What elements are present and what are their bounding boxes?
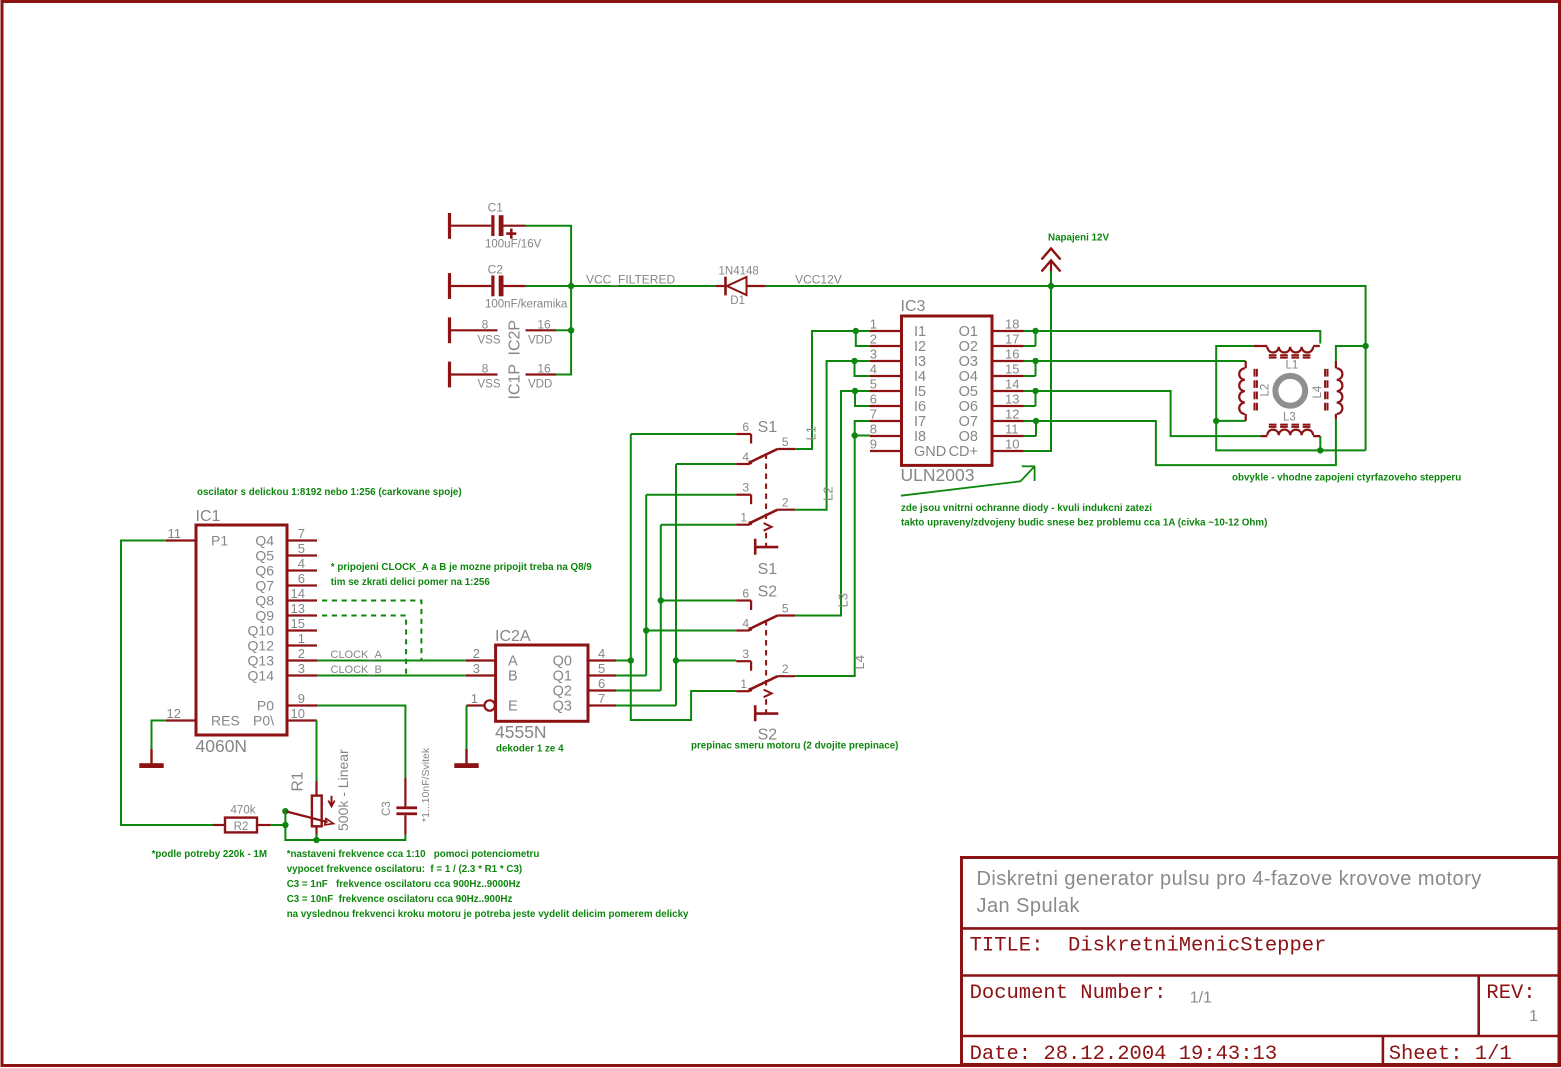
IC2A pin 7 (Q3) stub [588,704,616,706]
wire branch to IC2P VDD [556,329,571,331]
svg-text:IC3: IC3 [901,298,926,315]
inductor L2 core dashes [1254,369,1256,411]
svg-text:2: 2 [298,646,305,661]
svg-text:O2: O2 [959,339,978,355]
svg-text:O4: O4 [959,369,978,385]
wire tie IC3 pins 1-2 [856,331,870,346]
svg-text:O3: O3 [959,354,978,370]
svg-text:R1: R1 [290,772,307,792]
svg-text:L3: L3 [1283,411,1296,423]
capacitor C3 plates [396,806,417,809]
IC3 pin 1 (I1) stub [870,330,902,332]
wire tie IC3 pin 8 into L4 net [855,435,870,437]
switch S1 gang dashed link [765,454,767,522]
svg-text:7: 7 [870,407,877,422]
svg-text:8: 8 [482,362,489,376]
svg-text:11: 11 [1005,422,1019,437]
svg-text:Document Number:: Document Number: [970,982,1167,1005]
switch S2 pole B lever 1-2 [750,676,778,690]
IC3 pin 2 (I2) stub [870,345,902,347]
svg-text:CLOCK_A: CLOCK_A [331,649,383,661]
capacitor C2 right wire [504,285,526,287]
svg-text:O5: O5 [959,384,978,400]
IC1 pin 5 (Q5) stub [287,554,317,556]
junction dot at wiper [282,808,288,814]
svg-text:1: 1 [740,511,747,525]
svg-text:Q1: Q1 [553,669,572,685]
title block divider under Document Number row [962,1035,1560,1038]
svg-text:Jan Spulak: Jan Spulak [977,895,1081,917]
capacitor C1 plate 2 (electrolytic) [499,215,504,236]
junction dot VCC12V at L4 top branch [1362,343,1368,349]
junction dot IC3 pins 18-17 [1032,328,1038,334]
wire IC1 RES pin 12 to ground [152,721,167,750]
svg-text:Diskretni generator pulsu pro: Diskretni generator pulsu pro 4-fazove k… [977,868,1482,890]
IC2A pin 6 (Q2) stub [588,689,616,691]
switch S2 pole B pin 1 stub [736,690,749,692]
svg-text:Q9: Q9 [255,608,274,624]
junction dot IC3 pins 1-2 [853,328,859,334]
IC3 pin 13 (O6) stub [992,405,1024,407]
svg-text:IC1: IC1 [196,508,221,525]
svg-text:TITLE: DiskretniMenicStepper: TITLE: DiskretniMenicStepper [970,935,1327,958]
svg-text:6: 6 [598,676,605,691]
title block REV column divider [1477,976,1480,1037]
title block Sheet column divider [1382,1036,1385,1065]
svg-text:A: A [508,654,518,670]
IC1 pin 1 (Q12) stub [287,644,317,646]
wire net O1/O2 output to motor coil L1 right end [1024,331,1321,344]
svg-text:I6: I6 [914,399,926,415]
svg-text:1N4148: 1N4148 [719,266,759,278]
IC3 pin 7 (I7) stub [870,420,902,422]
svg-text:2: 2 [473,646,480,661]
op IC3 ULN2003 body box [902,316,993,465]
svg-text:9: 9 [298,691,305,706]
svg-text:6: 6 [742,420,749,434]
svg-text:VSS: VSS [478,379,501,391]
capacitor C3 bottom stub [404,815,406,834]
junction dot net Q1 at S2 throw 4 row [643,627,649,633]
svg-text:VSS: VSS [478,334,501,346]
svg-text:5: 5 [782,435,789,449]
switch S1 pole A lever 4-5 [750,449,778,463]
switch S2 pole A pin 4 stub [736,629,749,631]
optional dashed wire from IC1 Q8 to CLOCK_A [322,601,421,661]
svg-text:S2: S2 [758,583,778,600]
IC1 pin 4 (Q6) stub [287,569,317,571]
svg-text:oscilator s delickou 1:8192 ne: oscilator s delickou 1:8192 nebo 1:256 (… [197,487,462,498]
svg-text:GND: GND [914,444,946,460]
inductor L2 motor coil (left) [1245,361,1247,421]
IC1 pin 14 (Q8) stub [287,599,317,601]
svg-text:7: 7 [298,526,305,541]
svg-text:4: 4 [742,617,749,631]
switch S2 gang dashed link [765,620,767,688]
wire tie IC3 pins 14-13 [1035,391,1037,406]
IC3 pin 4 (I4) stub [870,375,902,377]
svg-text:Q10: Q10 [248,623,275,639]
junction dot IC3 pins 7-8 [852,432,858,438]
svg-text:3: 3 [742,647,749,661]
svg-text:6: 6 [870,392,877,407]
svg-text:C3: C3 [381,801,393,816]
svg-text:5: 5 [598,661,605,676]
wire net VCC12V from D1 to motor common [766,286,1366,450]
svg-text:3: 3 [742,481,749,495]
svg-text:E: E [508,699,518,715]
wire net Q0: IC2A Q0 to S1 throw 6 and S2 throw 1 [616,660,631,662]
svg-text:4: 4 [598,646,605,661]
svg-text:Q0: Q0 [553,654,572,670]
junction dot motor common at L1/L2 [1213,418,1219,424]
ground symbol at IC1 RES [150,749,152,764]
wire tie IC3 pins 16-15 [1035,361,1037,376]
wire R2 right to wiper column [271,824,286,826]
wire net O3/O4 output to motor coil L2 top end [1024,360,1246,362]
svg-text:16: 16 [537,362,551,376]
wire net Q3: IC2A Q3 to S1 throw 4 and S2 throw 3 [616,705,676,707]
switch S1 throw contact 3 [736,494,751,496]
diode D1 left lead [716,285,725,287]
svg-text:1: 1 [870,317,877,332]
IC2A pin 4 (Q0) stub [588,659,616,661]
IC3 pin 17 (O2) stub [992,345,1024,347]
svg-text:3: 3 [473,661,480,676]
svg-text:4555N: 4555N [495,722,547,742]
junction dot IC3 pins 14-13 [1032,388,1038,394]
svg-text:8: 8 [482,317,489,331]
switch S1 detent spring symbol [764,523,772,531]
inductor L3 motor coil (bottom) [1261,435,1321,437]
IC2A pin 2 (A) stub [466,659,496,661]
wire net Q1: IC2A Q1 to S1 throw 3 and S2 throw 4 [616,675,646,677]
svg-text:REV:: REV: [1486,982,1535,1005]
svg-text:S1: S1 [758,419,778,436]
svg-text:P1: P1 [211,533,228,549]
svg-text:16: 16 [1005,347,1019,362]
svg-text:4: 4 [298,556,305,571]
wire wiper column down to R1 bottom and C3 bottom [285,811,405,840]
switch S2 pole A lever 4-5 [750,616,778,630]
potentiometer R1 top stub [315,781,317,796]
wire IC2A E to ground [466,706,468,750]
svg-text:1/1: 1/1 [1190,989,1212,1006]
junction dot VCC12V at supply arrow [1048,283,1054,289]
diode D1 right lead [747,285,766,287]
wire motor common: L1 left / L2 bottom / L3 right to VCC12V [1216,346,1365,450]
motor rotor core circle [1275,376,1305,406]
svg-text:L3: L3 [836,593,851,607]
resistor R2 body [225,818,257,833]
inductor L4 core dashes [1324,369,1326,411]
counter IC1 4060N body box [196,525,287,735]
switch S2 detent spring symbol [764,690,772,698]
svg-text:Napajeni 12V: Napajeni 12V [1048,233,1109,244]
svg-text:takto upraveny/zdvojeny budic: takto upraveny/zdvojeny budic snese bez … [901,518,1267,529]
svg-text:2: 2 [782,662,789,676]
IC1P VDD stub [526,373,557,375]
svg-text:4060N: 4060N [196,736,248,756]
inductor L1 core dashes [1269,354,1311,356]
capacitor C1 right wire [504,225,526,227]
svg-text:500k - Linear: 500k - Linear [335,749,351,831]
switch S2 common pin 2 stub [778,675,796,677]
svg-text:VDD: VDD [528,334,552,346]
IC1 pin 12 (RES) stub [166,719,196,721]
svg-text:*nastaveni frekvence cca 1:10: *nastaveni frekvence cca 1:10 pomoci pot… [287,849,540,860]
supply symbol Napajeni 12V arrow chevrons [1042,249,1061,260]
svg-text:L4: L4 [852,655,867,669]
potentiometer R1 wiper arrow [287,812,328,823]
svg-text:O7: O7 [959,414,978,430]
svg-text:4: 4 [742,450,749,464]
svg-text:6: 6 [742,587,749,601]
title block divider under header [962,927,1560,930]
IC3 pin 6 (I6) stub [870,405,902,407]
svg-text:vypocet frekvence oscilatoru:: vypocet frekvence oscilatoru: f = 1 / (2… [287,864,523,875]
svg-text:2: 2 [782,496,789,510]
inductor L1 motor coil (top) [1261,345,1320,347]
inductor L1 left lead red stub [1254,345,1261,347]
svg-text:Q12: Q12 [248,638,275,654]
svg-text:*podle potreby 220k - 1M: *podle potreby 220k - 1M [152,849,267,860]
svg-text:Q13: Q13 [248,653,275,669]
switch S1 pole B pin 1 stub [736,524,749,526]
IC3 pin 10 (CD+) stub [992,450,1024,452]
junction dot motor common at L3 right [1317,447,1323,453]
wire net O5/O6 output to motor coil L3 left end [1024,391,1261,436]
svg-text:5: 5 [298,541,305,556]
svg-text:I5: I5 [914,384,926,400]
svg-text:5: 5 [782,602,789,616]
svg-text:Q2: Q2 [553,684,572,700]
svg-text:VCC12V: VCC12V [795,273,842,287]
wire tie IC3 pins 12-11 [1035,421,1037,436]
wire tie IC3 pins 3-4 [855,361,871,376]
switch S1 pole B lever 1-2 [750,510,778,524]
svg-text:L1: L1 [804,426,819,440]
diode D1 cathode bar [724,277,727,296]
svg-text:*1...10nF/Svitek: *1...10nF/Svitek [420,747,432,822]
wire joining C1, C2, VDD pins (vertical VCC_FILTERED branch) [526,226,572,375]
svg-text:prepinac smeru motoru (2 dvoji: prepinac smeru motoru (2 dvojite prepina… [691,741,898,752]
IC2A pin 5 (Q1) stub [588,674,616,676]
svg-text:IC2A: IC2A [495,628,531,645]
wire net CLOCK_B from IC1 Q14 [317,675,466,677]
potentiometer R1 adjust arrow [331,796,333,805]
IC3 pin 5 (I5) stub [870,390,902,392]
IC1 pin 2 (Q13) stub [287,659,317,661]
IC1 pin 11 (P1) stub [166,539,196,541]
svg-text:Q7: Q7 [255,578,274,594]
IC3 pin 9 (GND) stub [870,450,902,452]
svg-text:Q4: Q4 [255,533,274,549]
svg-text:12: 12 [1005,407,1019,422]
svg-text:13: 13 [291,601,305,616]
wire tie IC3 pins 5-6 [855,391,870,406]
capacitor C1 left wire [451,225,491,227]
IC2A pin 1 (E) stub [467,704,485,706]
svg-text:11: 11 [168,526,182,541]
junction dot IC3 pins 5-6 [852,388,858,394]
IC1 pin 10 (P0\) stub [287,719,317,721]
switch S2 common pin 5 stub [778,614,796,616]
wire net CLOCK_A from IC1 Q13 [317,660,466,662]
svg-text:S1: S1 [758,561,778,578]
svg-text:12: 12 [167,706,181,721]
annotation leader arrow pointing at IC3 [901,467,1034,496]
junction dot VCC_FILTERED at C2 [568,283,574,289]
capacitor C1 polarity + sign [506,232,516,235]
supply symbol stem [1050,262,1052,273]
decoder IC2A 4555N body box [496,645,588,721]
IC3 pin 11 (O8) stub [992,435,1024,437]
svg-text:I3: I3 [914,354,926,370]
IC3 pin 8 (I8) stub [870,435,902,437]
svg-text:na vyslednou frekvenci kroku m: na vyslednou frekvenci kroku motoru je p… [287,909,689,920]
svg-text:3: 3 [870,347,877,362]
svg-text:tim se zkrati delici pomer na: tim se zkrati delici pomer na 1:256 [331,577,491,588]
capacitor C2 left wire [451,285,491,287]
svg-text:L4: L4 [1312,385,1324,398]
svg-text:Q3: Q3 [553,699,572,715]
svg-text:VCC_FILTERED: VCC_FILTERED [586,273,675,287]
svg-text:16: 16 [537,317,551,331]
svg-text:Q8: Q8 [255,593,274,609]
IC1 pin 15 (Q10) stub [287,629,317,631]
junction dot net Q3 at S2 throw 3 row [673,657,679,663]
capacitor C3 top stub [404,778,406,806]
IC2A pin 3 (B) stub [466,674,496,676]
junction dot IC3 pins 12-11 [1033,418,1039,424]
svg-text:RES: RES [211,713,240,729]
IC1 pin 7 (Q4) stub [287,539,317,541]
svg-text:P0\: P0\ [253,713,274,729]
wire branch L3 right end down to common [1319,436,1321,450]
svg-text:O1: O1 [959,324,978,340]
svg-text:I8: I8 [914,429,926,445]
svg-text:100nF/keramika: 100nF/keramika [485,299,568,311]
IC1 pin 3 (Q14) stub [287,674,317,676]
potentiometer R1 body [312,796,322,827]
svg-text:Date: 28.12.2004 19:43:13: Date: 28.12.2004 19:43:13 [970,1043,1278,1066]
capacitor C1 left pin open-end tick [448,213,451,239]
wire net L2 coil-drive: IC3 I3/I4 to S1 common 2 [795,361,870,510]
capacitor C2 plate 2 [499,276,504,297]
svg-text:P0: P0 [257,698,274,714]
capacitor C1 plate 1 [491,215,494,236]
power pin symbol IC2P VSS open-end tick [448,317,451,343]
svg-text:I7: I7 [914,414,926,430]
junction dot at IC2P VDD [568,327,574,333]
IC3 pin 3 (I3) stub [870,360,902,362]
svg-text:3: 3 [298,661,305,676]
junction dot net Q2 at S2 throw 6 row [658,597,664,603]
IC1 pin 13 (Q9) stub [287,614,317,616]
resistor R2 left stub [213,824,225,826]
capacitor C2 plate 1 [491,276,494,297]
svg-text:Sheet: 1/1: Sheet: 1/1 [1389,1043,1512,1066]
wire net L1 coil-drive: IC3 I1/I2 to S1 common 5 [795,331,870,449]
svg-text:IC1P: IC1P [507,364,524,400]
svg-text:Q14: Q14 [248,668,275,684]
IC3 pin 14 (O5) stub [992,390,1024,392]
svg-text:CLOCK_B: CLOCK_B [331,664,382,676]
svg-text:L1: L1 [1286,359,1299,371]
svg-text:1: 1 [471,691,478,706]
svg-text:100uF/16V: 100uF/16V [485,239,542,251]
svg-text:I2: I2 [914,339,926,355]
svg-text:ULN2003: ULN2003 [901,465,975,485]
IC2A pin 1 (E) inversion bubble [485,700,495,710]
svg-text:18: 18 [1005,317,1019,332]
svg-text:B: B [508,669,518,685]
ground symbol at IC2A E [465,749,467,764]
wire IC1 P0\ pin 10 down to R1 top [316,721,319,782]
wire net L4 coil-drive: IC3 I7/I8 to S2 common 2 [795,421,870,676]
inductor L3 core dashes [1269,424,1311,426]
junction dot IC3 pins 16-15 [1032,358,1038,364]
wire tie IC3 pins 18-17 [1035,331,1037,346]
title block divider under TITLE row [962,974,1560,977]
switch S2 throw contact 3 [736,660,751,662]
diode D1 triangle [727,277,747,295]
svg-text:R2: R2 [234,821,249,833]
capacitor C2 left pin open-end tick [448,273,451,299]
svg-text:6: 6 [298,571,305,586]
svg-text:zde jsou vnitrni ochranne diod: zde jsou vnitrni ochranne diody - kvuli … [901,503,1152,514]
svg-text:C3 = 10nF frekvence oscilator: C3 = 10nF frekvence oscilatoru cca 90Hz.… [287,894,513,905]
power pin symbol IC1P VSS open-end tick [448,362,451,388]
power pin symbol IC2P VSS stub [451,329,498,331]
IC3 pin 15 (O4) stub [992,375,1024,377]
junction dot at R1 bottom [313,837,319,843]
svg-text:1: 1 [298,631,305,646]
svg-text:2: 2 [870,332,877,347]
IC3 pin 12 (O7) stub [992,420,1024,422]
wire net L3 coil-drive: IC3 I5/I6 to S2 common 5 [795,391,870,616]
switch S1 pole A pin 4 stub [736,463,749,465]
junction dot at R2 row [282,822,288,828]
switch S2 throw contact 6 [736,599,751,601]
wire net VCC_FILTERED [526,285,716,287]
IC1 pin 6 (Q7) stub [287,584,317,586]
svg-text:C2: C2 [488,262,504,276]
svg-text:O8: O8 [959,429,978,445]
svg-text:O6: O6 [959,399,978,415]
svg-text:7: 7 [598,691,605,706]
IC3 pin 16 (O3) stub [992,360,1024,362]
svg-text:IC2P: IC2P [507,320,524,356]
svg-text:Q5: Q5 [255,548,274,564]
wire CD+ pin 10 to VCC12V [1024,286,1052,451]
switch S1 actuator tee symbol [754,539,757,555]
potentiometer R1 bottom stub [315,826,317,836]
switch S2 actuator tee symbol [754,705,757,721]
svg-text:dekoder 1 ze 4: dekoder 1 ze 4 [496,744,564,755]
power pin symbol IC1P VSS stub [451,373,498,375]
svg-text:L2: L2 [1260,384,1272,397]
title block outline [962,858,1560,1065]
wire net O7/O8 output to motor coil L4 bottom end [1024,419,1336,465]
svg-text:C1: C1 [488,201,504,215]
svg-text:10: 10 [291,706,305,721]
svg-text:* pripojeni CLOCK_A a B je moz: * pripojeni CLOCK_A a B je mozne pripoji… [331,562,592,573]
svg-text:obvykle - vhodne zapojeni ctyr: obvykle - vhodne zapojeni ctyrfazoveho s… [1232,473,1461,484]
svg-text:D1: D1 [730,295,745,307]
svg-text:15: 15 [1005,362,1019,377]
